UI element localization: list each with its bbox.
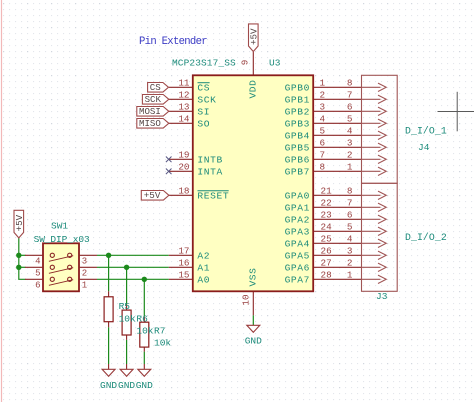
svg-text:2: 2: [347, 258, 353, 269]
resistor R5: [104, 297, 113, 322]
no-connect X at INTB: [166, 157, 172, 163]
svg-text:10k: 10k: [154, 337, 171, 348]
svg-text:GPB7: GPB7: [285, 166, 310, 177]
svg-text:3: 3: [320, 102, 326, 113]
svg-text:+5V: +5V: [248, 28, 259, 45]
svg-text:GND: GND: [100, 380, 117, 391]
svg-text:J3: J3: [376, 291, 388, 302]
svg-text:26: 26: [321, 246, 332, 257]
svg-text:SW_DIP_x03: SW_DIP_x03: [34, 234, 90, 245]
svg-text:A1: A1: [197, 262, 210, 273]
svg-text:GPA1: GPA1: [285, 202, 310, 213]
junction at +5V rail row 5: [16, 265, 21, 270]
svg-text:GPB4: GPB4: [285, 130, 310, 141]
svg-text:4: 4: [35, 256, 40, 266]
svg-text:SCK: SCK: [145, 94, 162, 105]
svg-text:7: 7: [347, 90, 353, 101]
SW1 switch element 2 contacts: [50, 265, 72, 269]
svg-text:RESET: RESET: [197, 190, 229, 201]
wire +5V rail to SW1 pin 4: [19, 254, 26, 256]
resistor and ground red pin stubs: [109, 291, 145, 369]
svg-text:SI: SI: [197, 106, 210, 117]
svg-text:CS: CS: [150, 82, 161, 93]
svg-text:SO: SO: [197, 118, 210, 129]
SW1 switch element 1 lever: [49, 256, 73, 262]
svg-text:8: 8: [320, 162, 326, 173]
svg-text:GPA2: GPA2: [285, 214, 310, 225]
svg-text:GND: GND: [118, 380, 135, 391]
svg-text:+5V: +5V: [144, 190, 161, 201]
svg-text:GPB2: GPB2: [285, 106, 310, 117]
ground GND under R6: [120, 369, 133, 376]
ground GND under R7: [138, 369, 151, 376]
svg-text:5: 5: [320, 126, 326, 137]
svg-text:6: 6: [320, 138, 326, 149]
wire +5V rail to SW1 pin 5: [19, 266, 26, 268]
svg-text:4: 4: [347, 126, 353, 137]
svg-text:8: 8: [347, 186, 353, 197]
junction R6 tap on A1: [124, 265, 129, 270]
svg-text:5: 5: [347, 222, 353, 233]
svg-text:R6: R6: [136, 313, 148, 324]
junction R7 tap on A0: [142, 277, 147, 282]
svg-text:9: 9: [240, 60, 251, 66]
wire A2 tap to R5: [108, 255, 110, 291]
svg-text:MISO: MISO: [139, 118, 161, 129]
svg-text:8: 8: [347, 78, 353, 89]
svg-text:GPA0: GPA0: [285, 190, 310, 201]
wire R6 to GND: [126, 340, 128, 364]
ground GND under R5: [102, 369, 115, 376]
svg-text:21: 21: [321, 186, 333, 197]
U3 VDD and VSS pin stubs: [252, 52, 254, 316]
wire SW1 to U3 A0: [97, 278, 169, 280]
svg-text:15: 15: [178, 270, 189, 281]
svg-text:13: 13: [178, 102, 189, 113]
svg-text:7: 7: [347, 198, 353, 209]
svg-text:20: 20: [178, 162, 189, 173]
svg-text:GPA5: GPA5: [285, 250, 310, 261]
svg-text:23: 23: [321, 210, 332, 221]
power +5V at SW1: [14, 210, 24, 238]
wire SW1 to U3 A2: [97, 254, 169, 256]
SW1 switch element 1 contacts: [50, 253, 72, 257]
svg-text:A0: A0: [197, 274, 210, 285]
switch SW1 body SW_DIP_x03: [43, 243, 79, 291]
svg-text:4: 4: [347, 234, 353, 245]
svg-text:VDD: VDD: [248, 79, 259, 98]
svg-text:J4: J4: [418, 142, 430, 153]
svg-text:6: 6: [347, 102, 353, 113]
svg-text:GPA6: GPA6: [285, 262, 310, 273]
svg-text:12: 12: [178, 90, 189, 101]
svg-text:GND: GND: [136, 380, 153, 391]
connector pin arrows J4: [362, 83, 387, 175]
svg-text:1: 1: [82, 280, 87, 290]
svg-text:2: 2: [347, 150, 353, 161]
connector J4 body: [362, 75, 398, 183]
svg-text:MOSI: MOSI: [139, 106, 161, 117]
svg-text:17: 17: [178, 246, 189, 257]
global label MISO: [137, 119, 169, 129]
connector pin arrows J3: [362, 191, 387, 283]
svg-text:D_I/O_1: D_I/O_1: [405, 126, 447, 137]
U3 pin stubs left: [169, 87, 193, 279]
svg-text:GPA4: GPA4: [285, 238, 310, 249]
svg-text:3: 3: [347, 246, 353, 257]
svg-text:U3: U3: [269, 58, 281, 69]
wire A0 tap to R7: [143, 279, 145, 316]
ground GND at U3 VSS: [247, 325, 260, 332]
svg-text:GPB5: GPB5: [285, 142, 310, 153]
svg-text:6: 6: [35, 280, 40, 290]
cursor crosshair: [438, 92, 474, 132]
svg-text:11: 11: [178, 78, 190, 89]
no-connect X at INTA: [166, 169, 172, 175]
svg-text:19: 19: [178, 150, 189, 161]
svg-text:6: 6: [347, 210, 353, 221]
svg-text:3: 3: [82, 256, 87, 266]
svg-text:10k: 10k: [136, 325, 153, 336]
svg-text:VSS: VSS: [248, 267, 259, 286]
svg-text:GPA7: GPA7: [285, 274, 310, 285]
resistor R7: [140, 322, 149, 347]
svg-text:1: 1: [347, 270, 353, 281]
SW1 pin stubs: [25, 255, 97, 279]
svg-text:GPB0: GPB0: [285, 82, 310, 93]
junction at +5V rail row 4: [16, 253, 21, 258]
svg-text:GPB1: GPB1: [285, 94, 310, 105]
global label SCK: [142, 95, 168, 105]
svg-text:MCP23S17_SS: MCP23S17_SS: [172, 58, 236, 69]
svg-text:27: 27: [321, 258, 332, 269]
SW1 switch element 3 lever: [49, 280, 73, 286]
svg-text:28: 28: [321, 270, 332, 281]
connector J3 body: [362, 183, 398, 291]
svg-text:+5V: +5V: [14, 214, 25, 231]
power +5V at U3 VDD: [249, 24, 259, 52]
svg-text:D_I/O_2: D_I/O_2: [405, 232, 447, 243]
svg-text:3: 3: [347, 138, 353, 149]
svg-text:GPA3: GPA3: [285, 226, 310, 237]
svg-text:16: 16: [178, 258, 189, 269]
svg-text:A2: A2: [197, 250, 210, 261]
svg-text:R5: R5: [119, 301, 131, 312]
svg-text:1: 1: [320, 78, 326, 89]
op-amp U3 body MCP23S17_SS: [193, 75, 313, 291]
svg-text:5: 5: [35, 268, 40, 278]
power +5V at RESET: [141, 191, 169, 201]
connector pin stubs: [338, 87, 362, 279]
svg-text:10: 10: [241, 294, 252, 305]
SW1 switch element 3 contacts: [50, 277, 72, 281]
svg-text:SCK: SCK: [197, 94, 216, 105]
svg-text:2: 2: [82, 268, 87, 278]
svg-text:25: 25: [321, 234, 332, 245]
svg-text:INTA: INTA: [197, 166, 222, 177]
global label CS: [148, 83, 169, 93]
junction R5 tap on A2: [106, 253, 111, 258]
SW1 switch element 2 lever: [49, 268, 73, 274]
svg-text:22: 22: [321, 198, 332, 209]
svg-text:14: 14: [178, 114, 190, 125]
wire SW1 to U3 A1: [97, 266, 169, 268]
resistor R6: [122, 310, 131, 335]
wire A1 tap to R6: [126, 267, 128, 304]
wire U3 VSS to GND: [252, 315, 254, 325]
svg-text:10k: 10k: [119, 314, 136, 325]
svg-text:CS: CS: [197, 82, 210, 93]
svg-text:R7: R7: [154, 325, 165, 336]
svg-text:GND: GND: [245, 336, 262, 347]
svg-text:1: 1: [347, 162, 353, 173]
svg-text:4: 4: [320, 114, 326, 125]
svg-text:SW1: SW1: [51, 221, 68, 232]
svg-text:5: 5: [347, 114, 353, 125]
wire +5V rail vertical at SW1: [19, 238, 26, 279]
wire R5 to GND: [108, 327, 110, 364]
svg-text:18: 18: [178, 186, 189, 197]
svg-text:2: 2: [320, 90, 326, 101]
svg-text:GPB6: GPB6: [285, 154, 310, 165]
svg-text:24: 24: [321, 222, 333, 233]
global label MOSI: [137, 107, 169, 117]
sheet border line: [1, 0, 3, 402]
U3 pin stubs right: [313, 87, 337, 279]
svg-text:Pin Extender: Pin Extender: [139, 36, 207, 48]
svg-text:GPB3: GPB3: [285, 118, 310, 129]
svg-text:INTB: INTB: [197, 154, 222, 165]
wire R7 to GND: [143, 352, 145, 364]
svg-text:7: 7: [320, 150, 326, 161]
